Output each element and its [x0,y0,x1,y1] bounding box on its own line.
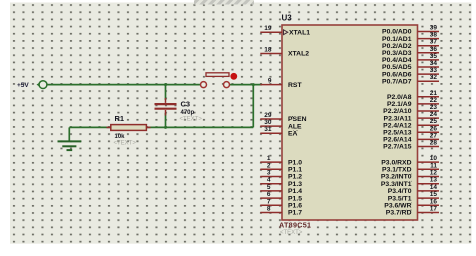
wire: vertical drop from RST net to bottom rail [252,85,254,128]
svg-text:4: 4 [267,177,271,184]
svg-text:P1.7: P1.7 [288,210,302,217]
IC U3 AT89C51 body [282,25,418,220]
svg-text:19: 19 [264,25,272,32]
pin 22 P2.1 stub [418,103,440,105]
svg-text:39: 39 [430,25,438,32]
svg-text:36: 36 [430,46,438,53]
svg-text:35: 35 [430,53,438,60]
svg-text:10k: 10k [115,134,126,140]
pin 36 P0.3 stub [418,52,440,54]
pin 3 P1.2 stub [260,176,282,178]
svg-text:XTAL2: XTAL2 [288,51,309,58]
svg-text:31: 31 [264,126,272,133]
svg-text:P2.2/A10: P2.2/A10 [383,108,412,115]
pin 12 P3.2 stub [418,176,440,178]
svg-text:P3.2/INT0: P3.2/INT0 [381,174,412,181]
svg-text:P0.6/AD6: P0.6/AD6 [382,71,412,78]
pin 23 P2.2 stub [418,110,440,112]
svg-text:P1.0: P1.0 [288,159,302,166]
svg-text:18: 18 [264,47,272,54]
svg-text:5: 5 [267,184,271,191]
svg-text:470p: 470p [181,110,195,116]
right pins: stubs [418,32,440,213]
svg-text:7: 7 [267,198,271,205]
svg-text:3: 3 [267,170,271,177]
svg-text:<TEXT>: <TEXT> [114,140,137,146]
pin 32 P0.7 stub [418,80,440,82]
pin 4 P1.3 stub [260,183,282,185]
svg-text:38: 38 [430,32,438,39]
svg-text:P0.5/AD5: P0.5/AD5 [382,64,412,71]
svg-text:15: 15 [430,191,438,198]
svg-text:P3.3/INT1: P3.3/INT1 [381,181,412,188]
pin 6 P1.5 stub [260,197,282,199]
svg-text:1: 1 [267,155,271,162]
svg-text:33: 33 [430,67,438,74]
svg-text:P2.1/A9: P2.1/A9 [387,101,412,108]
XTAL1 clock arrow [284,30,288,35]
svg-text:26: 26 [430,125,438,132]
svg-text:29: 29 [264,112,272,119]
ground [58,141,82,150]
svg-text:P3.0/RXD: P3.0/RXD [381,159,411,166]
pin 25 P2.4 stub [418,124,440,126]
svg-text:PSEN: PSEN [288,116,307,123]
svg-text:21: 21 [430,90,438,97]
svg-text:P0.4/AD4: P0.4/AD4 [382,57,412,64]
svg-text:9: 9 [268,78,272,85]
capacitor C3 [155,98,203,123]
svg-text:R1: R1 [115,114,125,123]
svg-text:32: 32 [430,74,438,81]
push button [201,73,238,88]
svg-text:30: 30 [264,119,272,126]
pin 39 P0.0 stub [418,31,440,33]
pin 17 P3.7 stub [418,212,440,214]
svg-text:10: 10 [430,155,438,162]
wire: ground stub vertical [68,127,70,141]
wire: C3 top lead [165,85,167,100]
wire: button right terminal to RST pin [230,84,263,86]
node junction at C3 bottom [164,126,167,129]
pin 24 P2.3 stub [418,117,440,119]
svg-text:P0.3/AD3: P0.3/AD3 [382,50,412,57]
pin 9 RST stub [260,84,282,86]
svg-text:25: 25 [430,118,438,125]
svg-text:12: 12 [430,170,438,177]
svg-text:XTAL1: XTAL1 [289,29,310,36]
svg-text:22: 22 [430,97,438,104]
svg-text:P0.2/AD2: P0.2/AD2 [382,43,412,50]
svg-text:U3: U3 [282,14,293,23]
svg-text:23: 23 [430,104,438,111]
svg-text:37: 37 [430,39,438,46]
svg-text:P1.1: P1.1 [288,167,302,174]
svg-text:RST: RST [288,82,302,89]
svg-text:28: 28 [430,140,438,147]
svg-text:P2.0/A8: P2.0/A8 [387,94,412,101]
left pin names [288,29,310,216]
node junction at C3 top [164,83,167,86]
pin 2 P1.1 stub [260,168,282,170]
pin 11 P3.1 stub [418,168,440,170]
svg-text:P1.4: P1.4 [288,188,302,195]
svg-text:P2.4/A12: P2.4/A12 [383,122,412,129]
pin 35 P0.4 stub [418,59,440,61]
node junction at RST drop [252,83,255,86]
svg-text:P2.7/A15: P2.7/A15 [383,144,412,151]
pin 10 P3.0 stub [418,161,440,163]
pin 30 ALE stub [260,125,282,127]
svg-text:P3.4/T0: P3.4/T0 [388,188,412,195]
pin 13 P3.3 stub [418,183,440,185]
svg-text:27: 27 [430,132,438,139]
svg-text:<TEXT>: <TEXT> [280,230,303,236]
pin 34 P0.5 stub [418,66,440,68]
wire: +5V rail to button left terminal [47,84,201,86]
svg-text:8: 8 [267,206,271,213]
pin 26 P2.5 stub [418,131,440,133]
right pin names [381,29,412,217]
right pin numbers [430,25,438,213]
pin 29 PSEN stub [260,118,282,120]
pin 21 P2.0 stub [418,96,440,98]
svg-text:P3.6/WR: P3.6/WR [384,203,411,210]
pin 19 XTAL1 stub [260,31,282,33]
svg-text:13: 13 [430,177,438,184]
pin 14 P3.4 stub [418,190,440,192]
wire: bottom rail (ground side to R1) [69,126,111,128]
left pins: stubs [260,32,282,212]
wire: C3 bottom lead [165,113,167,127]
svg-text:6: 6 [267,191,271,198]
pin 37 P0.2 stub [418,45,440,47]
pin 27 P2.6 stub [418,138,440,140]
grey hatched artifact strip top [194,0,254,5]
svg-text:2: 2 [267,162,271,169]
svg-text:16: 16 [430,198,438,205]
pin 8 P1.7 stub [260,212,282,214]
pin 33 P0.6 stub [418,73,440,75]
svg-text:11: 11 [430,162,437,169]
wire: bottom rail (R1 to vertical drop) [146,126,253,128]
svg-text:P1.3: P1.3 [288,181,302,188]
svg-text:P0.1/AD1: P0.1/AD1 [382,36,412,43]
pin 15 P3.5 stub [418,197,440,199]
svg-text:P1.2: P1.2 [288,174,302,181]
pin 31 EA stub [260,132,282,134]
pin 28 P2.7 stub [418,146,440,148]
svg-text:<TEXT>: <TEXT> [180,117,203,123]
svg-text:14: 14 [430,184,438,191]
power terminal +5V [17,81,47,90]
pin 5 P1.4 stub [260,190,282,192]
svg-text:C3: C3 [181,100,191,109]
pin 1 P1.0 stub [260,161,282,163]
svg-text:P3.7/RD: P3.7/RD [386,210,412,217]
svg-text:ALE: ALE [288,123,302,130]
left pin numbers [264,25,272,212]
svg-text:P1.5: P1.5 [288,195,302,202]
svg-text:P3.5/T1: P3.5/T1 [388,195,412,202]
svg-text:P0.7/AD7: P0.7/AD7 [382,78,412,85]
svg-text:P2.5/A13: P2.5/A13 [383,130,412,137]
pin 38 P0.1 stub [418,38,440,40]
svg-text:EA: EA [288,130,298,137]
pin 7 P1.6 stub [260,204,282,206]
svg-text:+5V: +5V [17,82,29,89]
svg-text:P2.6/A14: P2.6/A14 [383,137,412,144]
svg-text:P1.6: P1.6 [288,203,302,210]
pin 18 XTAL2 stub [260,53,282,55]
resistor R1 [107,114,151,147]
svg-text:17: 17 [430,206,438,213]
svg-text:34: 34 [430,60,438,67]
svg-text:24: 24 [430,111,438,118]
svg-text:P2.3/A11: P2.3/A11 [384,115,412,122]
svg-text:P3.1/TXD: P3.1/TXD [382,167,412,174]
svg-text:AT89C51: AT89C51 [279,221,311,230]
svg-text:P0.0/AD0: P0.0/AD0 [382,29,412,36]
pin 16 P3.6 stub [418,204,440,206]
